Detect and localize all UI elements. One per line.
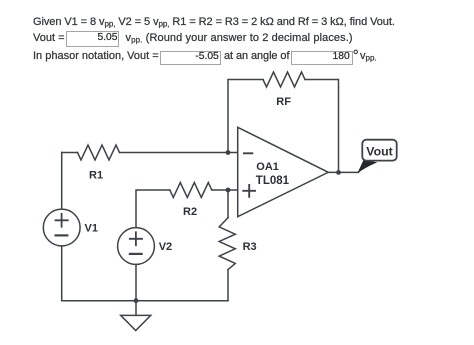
node: output junction dot — [336, 170, 341, 175]
svg-text:Vout: Vout — [366, 144, 392, 158]
problem text line 3 end vpp — [360, 50, 377, 63]
voltage source V2 — [118, 228, 155, 265]
wire: non-inverting input stub — [228, 189, 238, 191]
wire: R2 right lead to non-inverting node — [212, 189, 228, 191]
wire: RF right lead and feedback right vertical to output — [305, 80, 339, 173]
node: non-inverting input dot — [226, 188, 231, 193]
answer input box -5.05 — [160, 51, 222, 64]
svg-text:V2: V2 — [159, 241, 172, 253]
wire: inverting input stub — [228, 152, 238, 154]
wire: V1 bottom to ground rail — [61, 246, 63, 301]
answer input box 180 — [291, 51, 353, 64]
svg-text:R2: R2 — [183, 206, 197, 218]
wire: R3 bottom lead to ground rail — [227, 270, 229, 301]
resistor R3 — [219, 218, 235, 270]
resistor RF — [263, 72, 305, 87]
answer input box 5.05 — [66, 31, 119, 47]
wire: R1 left lead from top-left corner — [62, 152, 78, 154]
problem text line 2 label — [33, 32, 65, 45]
wire: V2 bottom to ground rail — [135, 265, 137, 301]
node: ground junction dot — [134, 298, 139, 303]
svg-text:R1: R1 — [89, 170, 103, 182]
voltage source V1 — [43, 209, 80, 246]
wire: bottom ground rail — [62, 300, 228, 302]
svg-text:TL081: TL081 — [256, 175, 290, 187]
problem text line 1 — [33, 16, 395, 29]
Vout pointer wedge — [357, 160, 377, 173]
wire: V2 top stub up and right to R2 — [136, 190, 170, 227]
problem text line 3 end degree — [353, 49, 359, 62]
resistor R2 — [170, 183, 212, 198]
wire: left vertical from R1 corner down to V1 — [61, 153, 63, 209]
wire: feedback left vertical and top lead to RF — [228, 80, 263, 153]
wire: R3 top lead from non-inverting node — [227, 190, 229, 218]
svg-text:OA1: OA1 — [256, 161, 279, 173]
ground — [121, 301, 151, 331]
node: inverting input dot — [226, 150, 231, 155]
Vout tag — [362, 140, 396, 161]
svg-text:V1: V1 — [85, 223, 98, 235]
problem text line 3 label — [33, 50, 159, 63]
problem text line 2 rest — [126, 32, 353, 45]
svg-text:RF: RF — [276, 96, 291, 108]
problem text line 3 middle — [224, 50, 289, 63]
svg-text:R3: R3 — [243, 241, 257, 253]
wire: op-amp output — [328, 171, 358, 173]
op-amp U1 OA1 TL081 — [238, 127, 329, 216]
resistor R1 — [78, 145, 120, 160]
wire: R1 right lead to inverting node — [120, 152, 229, 154]
